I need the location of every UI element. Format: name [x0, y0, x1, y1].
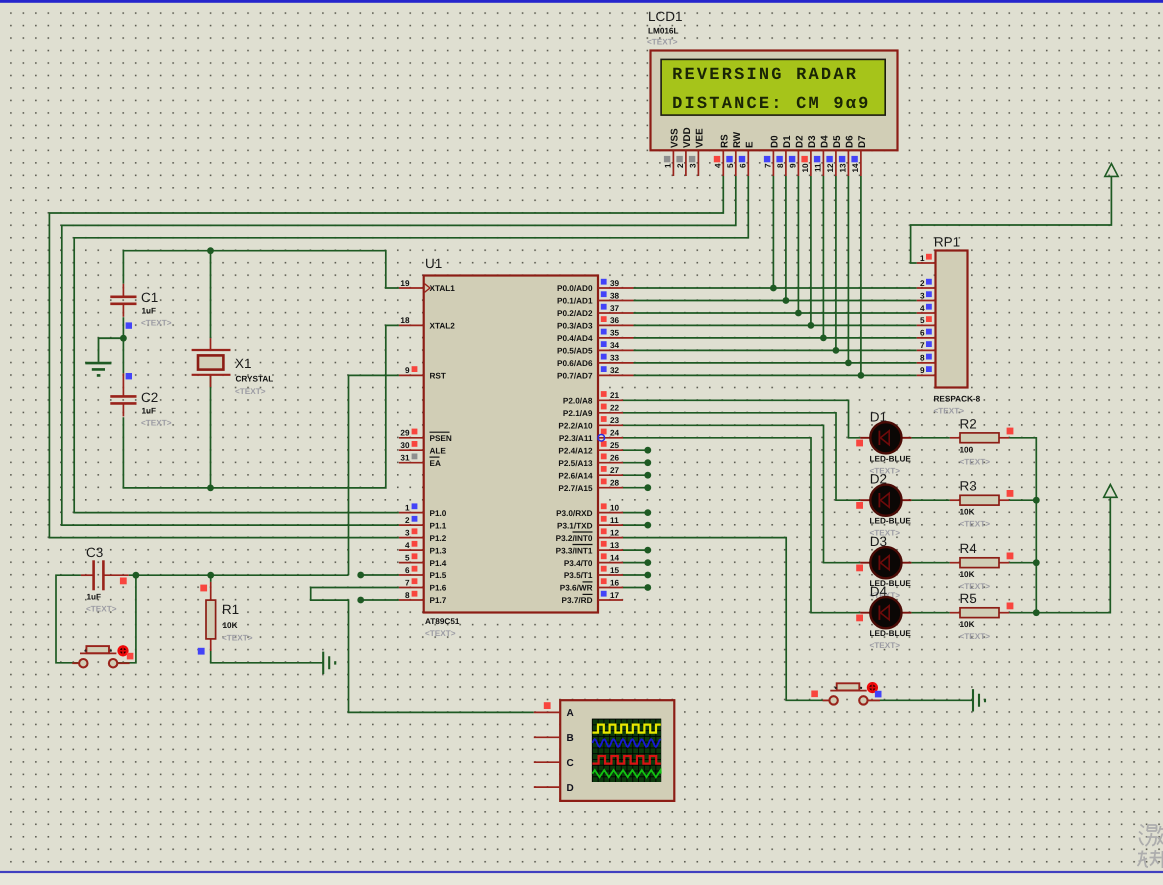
svg-text:28: 28	[610, 479, 620, 488]
svg-text:11: 11	[610, 516, 619, 525]
svg-text:9: 9	[788, 163, 797, 168]
wire U1 P2.6 stub	[623, 474, 648, 476]
svg-text:27: 27	[610, 466, 620, 475]
svg-text:P2.2/A10: P2.2/A10	[558, 422, 593, 431]
svg-text:P3.5/T1: P3.5/T1	[564, 571, 593, 580]
wire LCD D5 down to P0.5 bus	[835, 176, 837, 350]
svg-text:P1.6: P1.6	[430, 584, 447, 593]
svg-text:R5: R5	[960, 591, 977, 606]
node P3.0 end	[644, 509, 651, 516]
svg-text:36: 36	[610, 316, 620, 325]
svg-text:10K: 10K	[960, 570, 975, 579]
wire U1 P0.6 to RP1 pin 8	[634, 362, 917, 364]
svg-text:9: 9	[405, 366, 410, 375]
node P3.6 end	[644, 584, 651, 591]
wire U1 P3.5 stub	[623, 574, 648, 576]
svg-text:P1.3: P1.3	[430, 546, 447, 555]
junction X1 top	[207, 247, 214, 254]
wire LCD D0 down to P0.0 bus	[772, 176, 774, 288]
svg-text:<TEXT>: <TEXT>	[960, 582, 991, 591]
svg-text:P0.4/AD4: P0.4/AD4	[557, 334, 593, 343]
svg-text:14: 14	[610, 553, 620, 562]
svg-text:<TEXT>: <TEXT>	[141, 319, 172, 328]
svg-text:P1.4: P1.4	[430, 559, 447, 568]
power terminal VCC (top right)	[1105, 164, 1118, 177]
wire XTAL2 to C2/X1 bottom	[123, 325, 399, 488]
svg-text:25: 25	[610, 441, 620, 450]
svg-text:P0.7/AD7: P0.7/AD7	[557, 372, 593, 381]
wire R4 to rail	[1009, 562, 1036, 564]
svg-text:C2: C2	[141, 390, 158, 405]
wire C3 left to button 1	[56, 575, 81, 663]
svg-text:D: D	[567, 783, 574, 794]
svg-text:D1: D1	[782, 135, 793, 148]
svg-text:R3: R3	[960, 479, 977, 494]
wire RST riser	[349, 375, 399, 575]
svg-text:5: 5	[726, 163, 735, 168]
svg-text:P0.3/AD3: P0.3/AD3	[557, 322, 593, 331]
svg-text:EA: EA	[430, 459, 441, 468]
svg-text:<TEXT>: <TEXT>	[960, 457, 991, 466]
wire R3 to rail	[1009, 499, 1036, 501]
svg-text:29: 29	[400, 429, 410, 438]
wire U1 P2.2 to D3	[623, 425, 860, 562]
svg-text:ALE: ALE	[430, 446, 447, 455]
svg-text:P1.5: P1.5	[430, 571, 447, 580]
junction D1 on P0.1	[783, 297, 790, 304]
svg-text:D4: D4	[819, 135, 830, 148]
node P1.7 end	[357, 597, 364, 604]
svg-text:P2.6/A14: P2.6/A14	[558, 471, 593, 480]
resistor R5	[950, 591, 1014, 641]
svg-text:C3: C3	[86, 545, 103, 560]
wire D1 to R2	[911, 437, 949, 439]
svg-text:19: 19	[400, 279, 410, 288]
junction R4 rail	[1033, 559, 1040, 566]
svg-text:LED-BLUE: LED-BLUE	[870, 629, 912, 638]
svg-text:P0.1/AD1: P0.1/AD1	[557, 297, 593, 306]
svg-text:37: 37	[610, 304, 620, 313]
svg-text:6: 6	[920, 329, 925, 338]
svg-text:12: 12	[610, 528, 620, 537]
junction D4 on P0.4	[820, 335, 827, 342]
wire C1 to C2	[122, 317, 124, 373]
svg-text:10: 10	[801, 163, 810, 173]
wire LCD D7 down to P0.7 bus	[860, 176, 862, 375]
svg-text:C1: C1	[141, 290, 158, 305]
svg-text:XTAL2: XTAL2	[430, 322, 456, 331]
svg-text:LM016L: LM016L	[648, 27, 678, 36]
junction X1 bottom	[207, 485, 214, 492]
svg-text:<TEXT>: <TEXT>	[222, 634, 253, 643]
svg-text:D6: D6	[844, 135, 855, 148]
svg-text:1uF: 1uF	[142, 407, 157, 416]
svg-text:10K: 10K	[223, 621, 238, 630]
svg-text:35: 35	[610, 329, 620, 338]
svg-text:<TEXT>: <TEXT>	[960, 520, 991, 529]
svg-text:REVERSING RADAR: REVERSING RADAR	[672, 66, 858, 85]
wire X1 top lead net	[210, 251, 212, 339]
wire LCD D4 down to P0.4 bus	[822, 176, 824, 338]
wire LCD D3 down to P0.3 bus	[810, 176, 812, 325]
svg-text:P0.5/AD5: P0.5/AD5	[557, 347, 593, 356]
svg-text:13: 13	[610, 541, 620, 550]
svg-text:7: 7	[763, 163, 772, 168]
svg-text:8: 8	[920, 354, 925, 363]
svg-text:7: 7	[405, 578, 410, 587]
svg-text:P1.0: P1.0	[430, 509, 447, 518]
svg-text:10K: 10K	[960, 620, 975, 629]
svg-text:P3.2/INT0: P3.2/INT0	[556, 534, 593, 543]
svg-text:P3.1/TXD: P3.1/TXD	[557, 521, 593, 530]
svg-text:1: 1	[405, 503, 410, 512]
resistor R1	[198, 582, 253, 655]
capacitor C1	[110, 284, 171, 329]
svg-text:DISTANCE: CM 9α9: DISTANCE: CM 9α9	[672, 95, 870, 114]
svg-text:P0.0/AD0: P0.0/AD0	[557, 284, 593, 293]
wire U1 P2.0 to D1	[623, 400, 860, 438]
wire U1 P2.1 to D2	[623, 413, 860, 500]
svg-text:AT89C51: AT89C51	[425, 617, 460, 626]
svg-text:P3.3/INT1: P3.3/INT1	[556, 546, 593, 555]
LED D2 (LED-BLUE)	[856, 472, 911, 538]
svg-text:4: 4	[713, 163, 722, 168]
svg-text:14: 14	[851, 163, 860, 173]
svg-text:C: C	[567, 758, 574, 769]
svg-text:P3.7/RD: P3.7/RD	[562, 596, 593, 605]
LED D4 (LED-BLUE)	[856, 584, 911, 650]
svg-text:33: 33	[610, 354, 620, 363]
svg-text:16: 16	[610, 578, 620, 587]
svg-text:P1.7: P1.7	[430, 596, 447, 605]
svg-text:<TEXT>: <TEXT>	[86, 605, 117, 614]
svg-text:4: 4	[405, 541, 410, 550]
wire LCD D1 down to P0.1 bus	[785, 176, 787, 301]
ground (rotated) right	[973, 689, 985, 711]
wire P1.5 stub	[361, 574, 399, 576]
svg-text:3: 3	[405, 528, 410, 537]
svg-text:VEE: VEE	[694, 128, 705, 148]
svg-text:8: 8	[776, 163, 785, 168]
junction D0 on P0.0	[770, 285, 777, 292]
wire RP1 pin1 to VCC terminal	[911, 176, 1112, 263]
svg-text:<TEXT>: <TEXT>	[870, 641, 901, 650]
svg-text:23: 23	[610, 416, 620, 425]
wire R5 to rail	[1009, 612, 1036, 614]
wire U1 P0.5 to RP1 pin 7	[634, 349, 917, 351]
wire D2 to R3	[911, 499, 949, 501]
svg-text:P1.2: P1.2	[430, 534, 447, 543]
svg-text:P3.6/WR: P3.6/WR	[560, 584, 593, 593]
svg-text:R2: R2	[960, 416, 977, 431]
svg-text:12: 12	[826, 163, 835, 173]
svg-text:XTAL1: XTAL1	[430, 284, 456, 293]
ground (rotated)	[323, 652, 335, 674]
wire U1 P0.0 to RP1 pin 2	[634, 287, 917, 289]
crystal X1	[192, 338, 274, 396]
svg-text:5: 5	[920, 316, 925, 325]
node P2.4 end	[644, 447, 651, 454]
svg-text:<TEXT>: <TEXT>	[647, 38, 678, 47]
wire U1 P2.3 to D4	[623, 438, 860, 613]
resistor R2	[950, 416, 1014, 466]
svg-text:P3.4/T0: P3.4/T0	[564, 559, 593, 568]
svg-text:P2.7/A15: P2.7/A15	[558, 484, 593, 493]
svg-text:30: 30	[400, 441, 410, 450]
svg-text:6: 6	[738, 163, 747, 168]
wire P1.7 stub	[361, 599, 399, 601]
LCD display LCD1 (LM016L)	[647, 9, 898, 176]
svg-text:<TEXT>: <TEXT>	[235, 387, 266, 396]
push button 2	[811, 682, 881, 705]
capacitor C3	[81, 545, 129, 614]
svg-text:VSS: VSS	[669, 128, 680, 148]
svg-text:D5: D5	[832, 135, 843, 148]
svg-text:38: 38	[610, 291, 620, 300]
resistor R4	[950, 541, 1014, 591]
wire U1 P0.2 to RP1 pin 4	[634, 312, 917, 314]
svg-text:P1.1: P1.1	[430, 521, 447, 530]
node P1.5 end	[357, 572, 364, 579]
wire XTAL1 to C1/X1 top	[123, 251, 399, 288]
svg-text:P0.2/AD2: P0.2/AD2	[557, 309, 593, 318]
svg-text:1uF: 1uF	[87, 593, 102, 602]
svg-text:26: 26	[610, 454, 620, 463]
svg-text:<TEXT>: <TEXT>	[425, 629, 456, 638]
svg-text:D3: D3	[807, 135, 818, 148]
oscilloscope (4-channel)	[534, 700, 675, 801]
svg-text:10K: 10K	[960, 508, 975, 517]
resistor pack RP1 (RESPACK-8)	[917, 235, 981, 416]
wire LCD E to U1 P1.0	[74, 176, 748, 513]
svg-text:VDD: VDD	[682, 127, 693, 148]
LED D3 (LED-BLUE)	[856, 534, 911, 600]
junction R5 rail	[1033, 609, 1040, 616]
svg-text:13: 13	[838, 163, 847, 173]
wire U1 P3.2 to push button 2	[623, 538, 829, 701]
svg-text:RST: RST	[430, 372, 446, 381]
wire R1 bottom to ground	[211, 651, 323, 663]
svg-text:21: 21	[610, 391, 620, 400]
svg-text:8: 8	[405, 591, 410, 600]
svg-text:34: 34	[610, 341, 620, 350]
node P3.4 end	[644, 559, 651, 566]
svg-text:7: 7	[920, 341, 925, 350]
svg-text:3: 3	[688, 163, 697, 168]
wire U1 P2.7 stub	[623, 487, 648, 489]
svg-text:<TEXT>: <TEXT>	[960, 632, 991, 641]
svg-text:32: 32	[610, 366, 620, 375]
junction D3 on P0.3	[808, 322, 815, 329]
svg-text:P2.3/A11: P2.3/A11	[559, 434, 593, 443]
svg-text:LED-BLUE: LED-BLUE	[870, 454, 912, 463]
svg-text:P3.0/RXD: P3.0/RXD	[556, 509, 592, 518]
svg-text:100: 100	[960, 445, 974, 454]
junction D5 on P0.5	[833, 347, 840, 354]
power terminal VCC (right)	[1104, 485, 1117, 498]
svg-text:R1: R1	[222, 602, 239, 617]
svg-text:18: 18	[400, 316, 410, 325]
svg-text:R4: R4	[960, 541, 978, 556]
svg-text:P2.0/A8: P2.0/A8	[563, 397, 593, 406]
wire button 2 to ground	[869, 699, 973, 701]
capacitor C2	[110, 373, 171, 428]
svg-text:1: 1	[920, 254, 925, 263]
wire U1 P0.3 to RP1 pin 5	[634, 324, 917, 326]
microcontroller U1 (AT89C51)	[399, 256, 634, 638]
svg-text:P2.4/A12: P2.4/A12	[558, 446, 593, 455]
svg-text:22: 22	[610, 404, 620, 413]
wire D3 to R4	[911, 562, 949, 564]
svg-text:2: 2	[405, 516, 410, 525]
wire LCD D6 down to P0.6 bus	[847, 176, 849, 363]
node P3.3 end	[644, 547, 651, 554]
svg-text:17: 17	[610, 591, 620, 600]
junction D6 on P0.6	[845, 360, 852, 367]
node P2.6 end	[644, 472, 651, 479]
svg-text:RESPACK-8: RESPACK-8	[934, 395, 981, 404]
svg-text:4: 4	[920, 304, 925, 313]
svg-text:5: 5	[405, 553, 410, 562]
junction button branch	[133, 572, 140, 579]
svg-text:D2: D2	[794, 135, 805, 148]
svg-text:2: 2	[676, 163, 685, 168]
junction ground tap	[120, 335, 127, 342]
junction R3 rail	[1033, 497, 1040, 504]
wire U1 P3.3 stub	[623, 549, 648, 551]
wire LCD RW to U1 P1.1	[62, 176, 736, 525]
svg-text:RP1: RP1	[934, 235, 960, 250]
svg-text:LED-BLUE: LED-BLUE	[870, 517, 912, 526]
svg-text:<TEXT>: <TEXT>	[934, 407, 965, 416]
svg-text:P0.6/AD6: P0.6/AD6	[557, 359, 593, 368]
svg-text:PSEN: PSEN	[430, 434, 452, 443]
svg-text:1: 1	[663, 163, 672, 168]
svg-text:P2.1/A9: P2.1/A9	[563, 409, 593, 418]
node P3.5 end	[644, 572, 651, 579]
svg-text:39: 39	[610, 279, 620, 288]
svg-text:24: 24	[610, 429, 620, 438]
wire button 1 to reset node	[118, 575, 136, 663]
svg-text:P2.5/A13: P2.5/A13	[558, 459, 593, 468]
svg-text:1uF: 1uF	[142, 307, 157, 316]
wire reset node horizontal	[129, 574, 349, 576]
wire U1 P2.4 stub	[623, 449, 648, 451]
svg-text:3: 3	[920, 291, 925, 300]
wire LCD RS to U1 P1.2	[49, 176, 723, 538]
svg-text:11: 11	[813, 163, 822, 172]
junction R1 branch	[207, 572, 214, 579]
node P2.7 end	[644, 484, 651, 491]
wire LCD D2 down to P0.2 bus	[797, 176, 799, 313]
junction D7 on P0.7	[858, 372, 865, 379]
wire U1 P3.1 stub	[623, 524, 648, 526]
wire U1 P3.6 stub	[623, 587, 648, 589]
junction D2 on P0.2	[795, 310, 802, 317]
svg-text:9: 9	[920, 366, 925, 375]
svg-text:A: A	[567, 708, 574, 719]
svg-text:<TEXT>: <TEXT>	[141, 419, 172, 428]
watermark text (clipped Chinese)	[1138, 825, 1163, 869]
svg-text:RS: RS	[719, 134, 730, 148]
wire R1 top	[210, 575, 212, 582]
svg-text:10: 10	[610, 503, 620, 512]
svg-text:RW: RW	[732, 131, 743, 148]
wire U1 P0.7 to RP1 pin 9	[634, 374, 917, 376]
svg-text:D7: D7	[857, 135, 868, 148]
svg-text:LCD1: LCD1	[648, 9, 683, 24]
svg-text:U1: U1	[425, 256, 442, 271]
wire U1 P3.4 stub	[623, 562, 648, 564]
svg-text:B: B	[567, 733, 574, 744]
node P2.5 end	[644, 459, 651, 466]
wire resistor rail to VCC terminal	[1009, 438, 1110, 613]
wire U1 P0.4 to RP1 pin 6	[634, 337, 917, 339]
resistor R3	[950, 479, 1014, 529]
wire U1 P0.1 to RP1 pin 3	[634, 300, 917, 302]
LED D1 (LED-BLUE)	[856, 409, 911, 475]
wire U1 P2.5 stub	[623, 462, 648, 464]
wire X1 bottom lead net	[210, 375, 212, 488]
svg-text:CRYSTAL: CRYSTAL	[236, 375, 274, 384]
ground	[85, 338, 123, 375]
svg-text:6: 6	[405, 566, 410, 575]
svg-text:X1: X1	[235, 356, 252, 371]
node P3.1 end	[644, 522, 651, 529]
wire D4 to R5	[911, 612, 949, 614]
wire U1 P3.0 stub	[623, 512, 648, 514]
wire P1.6 to oscilloscope A	[311, 588, 534, 713]
svg-text:31: 31	[400, 454, 410, 463]
svg-text:E: E	[744, 141, 755, 148]
svg-text:D0: D0	[769, 135, 780, 148]
svg-text:2: 2	[920, 279, 925, 288]
push button 1 (reset)	[72, 645, 133, 667]
svg-text:15: 15	[610, 566, 620, 575]
